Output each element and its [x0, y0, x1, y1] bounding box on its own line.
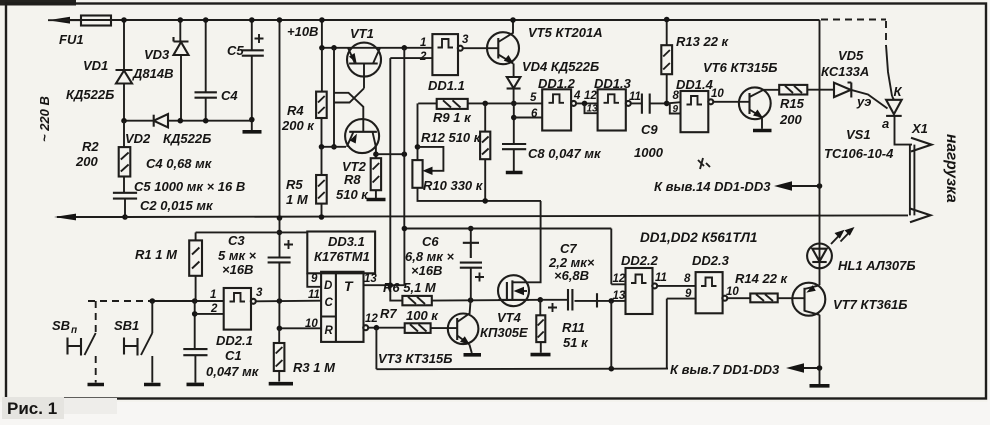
svg-text:×16В: ×16В [222, 262, 253, 277]
resistor R4 [281, 48, 327, 147]
svg-text:С4: С4 [221, 88, 238, 103]
wire R9 row [418, 101, 542, 107]
svg-text:13: 13 [364, 273, 377, 285]
svg-text:2: 2 [210, 303, 218, 315]
svg-text:Д814В: Д814В [132, 66, 173, 81]
gate DD1.4 [676, 77, 724, 132]
svg-text:Х1: Х1 [911, 121, 928, 136]
label to pin7 line [670, 362, 822, 377]
svg-text:11: 11 [655, 272, 667, 284]
ground under R8 [367, 198, 386, 202]
wire DD2.3 pin9 [667, 273, 696, 369]
svg-text:С5: С5 [227, 43, 244, 58]
svg-text:3: 3 [462, 34, 469, 46]
svg-text:5: 5 [530, 92, 537, 104]
svg-text:DD2.3: DD2.3 [692, 253, 730, 268]
svg-text:VT1: VT1 [350, 26, 374, 41]
svg-text:R7: R7 [380, 306, 397, 321]
svg-text:DD1.4: DD1.4 [676, 77, 714, 92]
wire +10V column [277, 17, 283, 221]
resistor R1 [135, 232, 202, 301]
capacitor C1 [183, 301, 259, 384]
resistor R9 [433, 99, 472, 125]
svg-text:VD4 КД522Б: VD4 КД522Б [522, 59, 599, 74]
flip-flop DD3.1 [321, 272, 363, 342]
svg-text:С1: С1 [225, 348, 242, 363]
wire main analog node [432, 297, 543, 303]
svg-text:R1 1 М: R1 1 М [135, 247, 178, 262]
svg-text:VD5: VD5 [838, 48, 864, 63]
gate DD2.1 [195, 287, 263, 348]
capacitor C2 [113, 177, 137, 220]
wire R15 to VD5 [807, 89, 834, 91]
wire common bottom rail [376, 366, 668, 372]
wire DD1.1 pin1 feedback column [403, 48, 405, 285]
svg-text:9: 9 [685, 288, 692, 300]
svg-text:VT7 КТ361Б: VT7 КТ361Б [833, 297, 907, 312]
node +10V label [287, 24, 318, 39]
wire DD1.1 pin2 column [389, 58, 391, 285]
gate DD2.3 [692, 253, 739, 313]
svg-text:VT6 КТ315Б: VT6 КТ315Б [703, 60, 777, 75]
svg-text:1: 1 [210, 289, 216, 301]
wire DD3.1 pin13 out [364, 273, 405, 288]
resistor R5 [286, 147, 327, 220]
wire dashed button row [88, 298, 224, 304]
svg-text:С9: С9 [641, 122, 658, 137]
svg-text:9: 9 [673, 104, 679, 115]
wire VD2 row [121, 118, 252, 124]
svg-text:C: C [325, 297, 334, 309]
svg-text:R14 22 к: R14 22 к [735, 271, 789, 286]
svg-text:51 к: 51 к [563, 335, 589, 350]
svg-text:9: 9 [311, 273, 318, 285]
wire VS1 gate [851, 90, 887, 109]
resistor R3 [269, 328, 336, 383]
wire DD1.4 pins [667, 90, 681, 115]
diode VD2 [125, 114, 211, 146]
svg-text:R6 5,1 М: R6 5,1 М [383, 280, 437, 295]
label to pin14 line [654, 179, 822, 194]
diode VD4 [507, 59, 600, 106]
wire DD1.4 out to VT6 [713, 101, 749, 103]
svg-text:К: К [894, 84, 903, 99]
capacitor C8 [502, 103, 602, 172]
connector X1 lines [910, 121, 928, 215]
svg-text:VD1: VD1 [83, 58, 108, 73]
label C4 value [146, 156, 213, 171]
ground under VT6 [753, 129, 772, 133]
resistor R2 [75, 121, 130, 177]
svg-text:R4: R4 [287, 103, 304, 118]
svg-text:R10 330 к: R10 330 к [423, 178, 484, 193]
label IC series [640, 230, 757, 245]
wire DD2.1 out [256, 289, 321, 304]
svg-text:1000: 1000 [634, 145, 664, 160]
svg-text:D: D [324, 280, 332, 292]
wire R1 C3 row [196, 231, 308, 233]
svg-text:VD2: VD2 [125, 131, 151, 146]
svg-text:DD2.1: DD2.1 [216, 333, 253, 348]
svg-text:Т: Т [344, 278, 354, 294]
label load [943, 134, 960, 203]
transistor VT7 [792, 283, 907, 316]
svg-text:~ 220 В: ~ 220 В [37, 96, 52, 142]
svg-text:R3 1 М: R3 1 М [293, 360, 336, 375]
wire right rail from top [819, 20, 821, 368]
wire VT2 emitter node [319, 144, 346, 150]
label C2 value [140, 198, 214, 213]
wire DD2.2 pin13 [609, 273, 626, 369]
svg-text:1: 1 [420, 37, 426, 49]
svg-text:R: R [325, 325, 334, 337]
gate DD1.1 [419, 34, 469, 93]
svg-text:КД522Б: КД522Б [163, 131, 211, 146]
svg-text:0,047 мк: 0,047 мк [206, 364, 260, 379]
led HL1 [807, 227, 915, 273]
svg-text:С4 0,68 мк: С4 0,68 мк [146, 156, 213, 171]
ground after C5 [243, 117, 262, 132]
wire VD1 branch vertical [121, 17, 127, 70]
svg-text:С3: С3 [228, 233, 245, 248]
svg-text:Рис. 1: Рис. 1 [7, 399, 57, 418]
capacitor C7 [540, 241, 625, 312]
label VS1 [824, 127, 894, 161]
svg-text:DD2.2: DD2.2 [621, 253, 659, 268]
svg-text:4: 4 [573, 90, 581, 102]
svg-text:п: п [71, 325, 77, 336]
svg-text:HL1 АЛ307Б: HL1 АЛ307Б [838, 258, 916, 273]
svg-text:R15: R15 [780, 96, 805, 111]
svg-text:DD1.1: DD1.1 [428, 78, 465, 93]
switch SB1 [114, 301, 161, 385]
transistor VT2 [342, 119, 379, 174]
gate DD2.2 [621, 253, 667, 314]
svg-text:R5: R5 [286, 177, 303, 192]
svg-text:R9 1 к: R9 1 к [433, 110, 472, 125]
svg-text:R8: R8 [344, 172, 361, 187]
capacitor C4 [195, 17, 239, 121]
resistor R11 [531, 300, 590, 355]
wire top rail [63, 19, 820, 21]
transistor VT6 [703, 60, 779, 129]
zener VD5 [821, 48, 869, 98]
svg-text:VS1: VS1 [846, 127, 871, 142]
switch SBp remote [52, 301, 104, 385]
gate DD1.3 [594, 76, 641, 131]
svg-text:уэ: уэ [856, 94, 871, 109]
scan edge smudge [0, 0, 76, 6]
svg-text:VT4: VT4 [497, 310, 522, 325]
resistor R13 [661, 17, 729, 107]
svg-text:R13 22 к: R13 22 к [676, 34, 730, 49]
svg-text:100 к: 100 к [406, 308, 439, 323]
ground under VT7 [810, 368, 830, 386]
svg-text:10: 10 [711, 88, 724, 100]
svg-text:DD1,DD2 К561ТЛ1: DD1,DD2 К561ТЛ1 [640, 230, 757, 245]
svg-text:×16В: ×16В [411, 263, 442, 278]
label C5 value [134, 179, 245, 194]
svg-text:13: 13 [613, 290, 626, 302]
wire DD3.1 pin12 out [363, 313, 405, 331]
svg-text:5 мк ×: 5 мк × [218, 248, 257, 263]
wire R3 to pin10 [277, 301, 322, 331]
capacitor C3 [218, 218, 293, 301]
potentiometer R10 [412, 103, 541, 203]
svg-text:11: 11 [308, 289, 320, 301]
wire mains bottom rail [57, 216, 125, 218]
svg-text:12: 12 [365, 313, 378, 325]
arrow X1 upper [911, 138, 932, 152]
svg-text:К выв.14 DD1-DD3: К выв.14 DD1-DD3 [654, 179, 771, 194]
figure caption box [2, 397, 117, 419]
svg-text:R2: R2 [82, 139, 99, 154]
capacitor C5 electrolytic [227, 17, 264, 119]
zener VD3 [132, 37, 189, 121]
svg-text:КП305Е: КП305Е [480, 325, 528, 340]
wire DD3.1 pin9 [307, 273, 321, 287]
svg-text:КС133А: КС133А [821, 64, 869, 79]
wire main lower rail [125, 215, 908, 217]
svg-text:DD1.3: DD1.3 [594, 76, 632, 91]
svg-text:200 к: 200 к [281, 118, 315, 133]
capacitor C9 [631, 94, 667, 161]
svg-text:С2 0,015 мк: С2 0,015 мк [140, 198, 214, 213]
mark speck [698, 158, 710, 169]
svg-text:SB: SB [52, 318, 70, 333]
resistor R7 [380, 306, 457, 333]
svg-text:6,8 мк ×: 6,8 мк × [405, 249, 455, 264]
svg-text:С6: С6 [422, 234, 439, 249]
resistor R6 [383, 280, 437, 305]
resistor R12 [421, 103, 490, 200]
svg-text:+10В: +10В [287, 24, 318, 39]
svg-text:К176ТМ1: К176ТМ1 [314, 249, 370, 264]
svg-text:К выв.7 DD1-DD3: К выв.7 DD1-DD3 [670, 362, 780, 377]
IC DD3.1 label box [307, 232, 375, 274]
svg-text:2: 2 [419, 51, 427, 63]
svg-text:FU1: FU1 [59, 32, 84, 47]
svg-text:R11: R11 [562, 320, 585, 335]
wire DD1.2 pin6 [514, 117, 542, 119]
svg-text:DD3.1: DD3.1 [328, 234, 365, 249]
wire feedback row2 [402, 226, 626, 285]
svg-text:а: а [882, 116, 889, 131]
svg-text:510 к: 510 к [336, 187, 369, 202]
gate DD1.2 [530, 76, 581, 131]
wire zener branch [178, 17, 184, 41]
transistor VT1 [347, 26, 381, 89]
fuse FU1 [59, 16, 111, 48]
capacitor C6 [405, 226, 484, 301]
svg-text:200: 200 [75, 154, 98, 169]
arrow bottom-left mains [54, 214, 76, 221]
svg-text:VD3: VD3 [144, 47, 170, 62]
node ~220V label [37, 96, 52, 142]
svg-text:12: 12 [584, 90, 597, 102]
diode VD1 [66, 58, 133, 121]
svg-text:R12 510 к: R12 510 к [421, 130, 482, 145]
svg-text:1 М: 1 М [286, 192, 309, 207]
resistor R15 [779, 85, 807, 127]
svg-text:нагрузка: нагрузка [943, 134, 960, 203]
svg-text:VT5 КТ201А: VT5 КТ201А [528, 25, 603, 40]
transistor VT4 fet [480, 201, 541, 340]
resistor R8 [336, 151, 381, 202]
svg-text:ТС106-10-4: ТС106-10-4 [824, 146, 894, 161]
svg-text:200: 200 [779, 112, 802, 127]
arrow X1 lower [910, 209, 931, 223]
svg-text:SB1: SB1 [114, 318, 139, 333]
svg-text:3: 3 [256, 287, 263, 299]
svg-text:VT3 КТ315Б: VT3 КТ315Б [378, 351, 452, 366]
transistor VT5 [487, 17, 603, 77]
thyristor VS1 [882, 96, 912, 145]
wire cross-coupling [331, 48, 364, 150]
svg-text:×6,8В: ×6,8В [554, 268, 589, 283]
arrow top-left mains [48, 17, 81, 24]
wire pin12 down to common [375, 328, 377, 370]
wire DD1.2 out / DD1.3 pins [576, 90, 598, 114]
svg-text:13: 13 [587, 103, 599, 114]
svg-text:С8 0,047 мк: С8 0,047 мк [528, 146, 602, 161]
wire VT2 right node [376, 151, 407, 157]
wire DD1.1 out to VT5 [463, 47, 499, 49]
svg-text:11: 11 [629, 91, 641, 103]
wire dashed to VS1 cathode [821, 20, 903, 100]
transistor VT3 [378, 300, 478, 366]
wire VT1 top node [319, 17, 432, 50]
svg-text:С5 1000 мк × 16 В: С5 1000 мк × 16 В [134, 179, 245, 194]
resistor R14 [727, 271, 804, 302]
svg-text:С7: С7 [560, 241, 577, 256]
ground under VT3 [464, 353, 482, 357]
svg-text:DD1.2: DD1.2 [538, 76, 576, 91]
svg-text:8: 8 [684, 273, 691, 285]
svg-text:10: 10 [305, 318, 318, 330]
wire DD2.2 out [657, 285, 695, 287]
wire DD1.1 pin2 stub [390, 57, 432, 59]
svg-text:КД522Б: КД522Б [66, 87, 114, 102]
svg-text:12: 12 [613, 273, 626, 285]
svg-text:10: 10 [726, 286, 739, 298]
